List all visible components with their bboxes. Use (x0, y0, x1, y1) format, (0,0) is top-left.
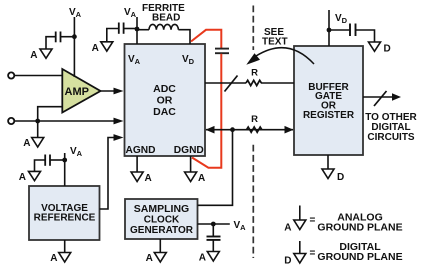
red decoupling loop wire (VD to cap) (191, 30, 221, 48)
wire sampling VA supply (198, 223, 230, 225)
svg-text:D: D (337, 172, 344, 183)
ground A (sampling) (146, 253, 167, 265)
node VA-VREF junction (62, 158, 67, 163)
svg-text:DGND: DGND (174, 145, 204, 156)
op-amp AMP (62, 69, 100, 113)
wire VA to ADC (136, 17, 138, 44)
wire buffer to ground (327, 155, 329, 169)
node clock junction (230, 127, 235, 132)
label DIGITAL GROUND PLANE (317, 241, 402, 263)
svg-text:AMP: AMP (65, 86, 89, 98)
ground A (AGND) (131, 172, 152, 184)
svg-text:A: A (92, 43, 99, 54)
capacitor C5 (207, 237, 221, 240)
node VA-ADC junction (135, 27, 140, 32)
svg-text:A: A (19, 172, 26, 183)
arrowhead AMP output into ADC (114, 88, 124, 95)
wire inverting input branch (38, 107, 63, 121)
wire AMP output to ADC (101, 90, 118, 92)
legend analog ground symbol (284, 206, 306, 234)
svg-text:A: A (284, 223, 291, 234)
label TO OTHER DIGITAL CIRCUITS (365, 112, 417, 143)
svg-text:A: A (30, 50, 37, 61)
arrowhead into buffer (lower R) (285, 126, 294, 134)
wire buffer output bus (363, 96, 393, 98)
svg-text:A: A (199, 253, 206, 264)
svg-text:TEXT: TEXT (262, 37, 288, 48)
resistor R (upper) (246, 80, 261, 85)
arrowhead output (392, 93, 401, 101)
VOLTAGE REFERENCE box U3 (29, 186, 100, 240)
svg-text:R: R (251, 114, 258, 125)
wire AGND pin (136, 156, 138, 172)
svg-text:GENERATOR: GENERATOR (130, 225, 194, 236)
capacitor C4 (45, 155, 50, 166)
wire C6 to ground (355, 30, 375, 42)
capacitor C2 (119, 23, 124, 34)
wire DGND pin (190, 156, 192, 172)
bus slash (output) (374, 91, 387, 106)
wire VD to buffer (328, 10, 330, 46)
svg-text:=: = (310, 248, 316, 259)
wire to decoupling cap C1 (61, 36, 75, 38)
ground A (C4) (19, 171, 41, 183)
wire to decoupling cap C4 (50, 159, 65, 161)
red decoupling loop wire (cap to DGND) (192, 54, 221, 168)
ground A (C2) (92, 42, 113, 54)
wire to cap C6 (329, 29, 350, 31)
svg-text:OR: OR (157, 95, 173, 107)
SEE TEXT label (262, 27, 288, 48)
svg-text:D: D (284, 256, 291, 265)
arrowhead (annotation) (246, 53, 260, 65)
svg-text:REGISTER: REGISTER (303, 110, 355, 121)
BUFFER GATE OR REGISTER box U2 (294, 46, 363, 155)
svg-text:A: A (198, 173, 205, 184)
wire junction to ground (37, 121, 39, 138)
node VD junction (327, 28, 332, 33)
wire VREF output to ADC (100, 138, 118, 210)
ground D (buffer) (322, 169, 344, 183)
node sampling VA junction (211, 222, 216, 227)
svg-text:GROUND PLANE: GROUND PLANE (317, 222, 402, 234)
wire input1 to AMP (15, 75, 63, 77)
ground A (DGND) (185, 172, 206, 184)
wire sampling clock output (198, 130, 233, 206)
ground D (C6) (369, 42, 391, 55)
svg-text:DAC: DAC (153, 106, 176, 118)
FERRITE BEAD label (142, 3, 185, 24)
node input2 junction (35, 119, 40, 124)
wire C5 to ground (212, 240, 214, 251)
svg-text:=: = (310, 215, 316, 226)
curved annotation arrow (256, 48, 314, 64)
wire VREF to ground (64, 240, 66, 253)
bus slash (upper) (225, 76, 238, 92)
wire junction to cap C5 (212, 224, 214, 236)
node VA-AMP junction (72, 34, 77, 39)
capacitor C1 (56, 32, 61, 43)
wire lower R interconnect (206, 129, 293, 131)
svg-text:A: A (145, 173, 152, 184)
svg-text:A: A (50, 253, 57, 264)
arrowhead into ADC (lower R) (206, 126, 215, 134)
ADC/DAC box U1 (125, 44, 206, 156)
label ANALOG GROUND PLANE (317, 212, 402, 234)
SAMPLING CLOCK GENERATOR box U4 (125, 199, 198, 239)
svg-text:A: A (146, 253, 153, 264)
input terminal 1 (8, 72, 14, 78)
svg-text:D: D (384, 44, 391, 55)
ground A (input2) (23, 138, 43, 150)
svg-text:CLOCK: CLOCK (144, 215, 180, 226)
ground A (VREF) (50, 253, 70, 265)
wire sampling box to ground (159, 239, 161, 253)
wire C1 to ground (46, 37, 56, 49)
svg-text:ADC: ADC (153, 83, 176, 95)
capacitor C6 (350, 24, 356, 37)
svg-text:CIRCUITS: CIRCUITS (367, 132, 415, 143)
svg-text:A: A (23, 138, 30, 149)
svg-text:GROUND PLANE: GROUND PLANE (317, 251, 402, 263)
dashed analog/digital partition line (lower segment) (252, 145, 254, 258)
wire C2 to ground (107, 29, 119, 42)
wire input2 to ADC (15, 120, 118, 122)
wire upper R interconnect (205, 82, 294, 84)
wire bead right to VD entry (178, 30, 190, 44)
capacitor C3 (VD decoupling) (215, 49, 229, 54)
svg-text:REFERENCE: REFERENCE (34, 213, 96, 224)
arrowhead VREF into ADC (114, 134, 124, 141)
wire VA to VREF (64, 153, 66, 186)
arrowhead input2 into ADC (114, 118, 124, 125)
ferrite bead L1 (149, 24, 178, 29)
svg-text:AGND: AGND (126, 145, 156, 156)
wire bead to VD pin (137, 29, 149, 31)
legend digital ground symbol (284, 241, 306, 265)
ground A (C5) (199, 252, 220, 264)
input terminal 2 (8, 118, 14, 124)
svg-text:SAMPLING: SAMPLING (134, 203, 189, 215)
wire C4 to ground (35, 160, 46, 171)
wire VA to AMP (73, 17, 75, 77)
resistor R (lower) (247, 127, 262, 132)
ground A (C1) (30, 49, 52, 61)
svg-text:BEAD: BEAD (152, 13, 180, 24)
wire to decoupling cap C2 (124, 28, 137, 30)
svg-text:R: R (251, 68, 258, 79)
dashed analog/digital partition line (upper segment) (252, 6, 254, 51)
